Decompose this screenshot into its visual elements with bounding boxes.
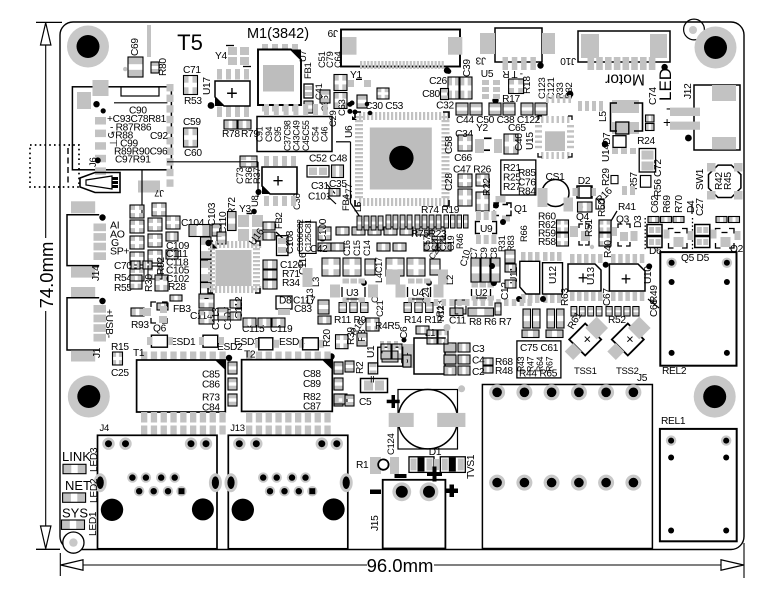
svg-text:R66: R66 xyxy=(519,225,530,242)
svg-text:TSS1: TSS1 xyxy=(574,366,597,377)
svg-text:T1: T1 xyxy=(133,348,145,359)
svg-text:R4R5: R4R5 xyxy=(375,321,400,332)
svg-text:C67: C67 xyxy=(602,288,613,306)
svg-text:J1: J1 xyxy=(92,347,103,358)
svg-text:L4: L4 xyxy=(374,273,385,283)
svg-text:C30 C53: C30 C53 xyxy=(365,101,404,112)
svg-text:J12: J12 xyxy=(683,83,694,99)
svg-text:C42: C42 xyxy=(310,244,328,255)
svg-text:Y2: Y2 xyxy=(476,123,488,134)
svg-text:R84: R84 xyxy=(518,187,536,198)
svg-text:C77: C77 xyxy=(344,183,355,200)
svg-text:C32: C32 xyxy=(436,101,454,112)
svg-text:J9: J9 xyxy=(327,27,338,38)
svg-text:C97R91: C97R91 xyxy=(115,155,151,166)
svg-text:R70: R70 xyxy=(674,195,685,213)
svg-text:R53: R53 xyxy=(184,96,202,107)
svg-text:+: + xyxy=(226,83,238,105)
svg-text:U7: U7 xyxy=(298,50,309,62)
svg-text:C17: C17 xyxy=(374,257,384,273)
svg-text:R41: R41 xyxy=(618,202,636,213)
svg-text:SP+: SP+ xyxy=(110,245,129,257)
svg-text:C27: C27 xyxy=(695,198,706,216)
svg-text:D8: D8 xyxy=(279,296,292,307)
svg-text:C4: C4 xyxy=(472,356,485,367)
svg-text:R74 R19: R74 R19 xyxy=(421,205,460,216)
svg-text:C74: C74 xyxy=(648,87,659,105)
svg-text:×: × xyxy=(626,332,633,347)
svg-text:M1(3842): M1(3842) xyxy=(247,26,309,42)
svg-text:SYS: SYS xyxy=(62,506,88,521)
svg-text:C29: C29 xyxy=(328,110,339,127)
svg-text:×: × xyxy=(584,332,591,347)
svg-text:LED2: LED2 xyxy=(89,478,100,503)
svg-text:J14: J14 xyxy=(91,265,102,281)
svg-text:R1: R1 xyxy=(356,460,369,471)
svg-text:R34: R34 xyxy=(282,278,300,289)
svg-text:C62: C62 xyxy=(650,195,661,213)
svg-text:R56: R56 xyxy=(653,179,664,197)
svg-text:C59: C59 xyxy=(183,117,201,128)
svg-text:TVS1: TVS1 xyxy=(466,454,477,479)
svg-text:R24: R24 xyxy=(637,136,655,147)
svg-text:C14: C14 xyxy=(362,240,372,256)
svg-text:- T R: - T R xyxy=(503,68,523,79)
svg-text:96.0mm: 96.0mm xyxy=(367,555,434,576)
svg-text:J6: J6 xyxy=(88,158,99,167)
svg-text:J15: J15 xyxy=(370,515,381,531)
svg-text:L3: L3 xyxy=(311,277,322,287)
svg-text:L6: L6 xyxy=(353,202,364,212)
svg-text:TSS2: TSS2 xyxy=(616,366,639,377)
svg-text:R80: R80 xyxy=(158,58,169,76)
svg-text:C6: C6 xyxy=(399,326,410,339)
svg-text:D3: D3 xyxy=(633,215,644,228)
svg-text:R48: R48 xyxy=(495,366,513,377)
svg-text:C75 C61: C75 C61 xyxy=(520,343,559,354)
svg-text:LED3: LED3 xyxy=(89,447,100,472)
svg-text:C72: C72 xyxy=(653,159,664,177)
svg-text:R45: R45 xyxy=(723,172,734,190)
svg-text:REL2: REL2 xyxy=(662,366,687,377)
svg-text:J13: J13 xyxy=(230,423,244,434)
svg-text:CS1: CS1 xyxy=(546,172,566,183)
svg-text:C66: C66 xyxy=(454,153,472,164)
svg-text:U15: U15 xyxy=(525,132,536,150)
svg-text:74.0mm: 74.0mm xyxy=(36,242,57,309)
svg-text:C15: C15 xyxy=(352,240,362,256)
svg-text:C3: C3 xyxy=(472,344,485,355)
svg-text:R29: R29 xyxy=(601,168,612,186)
svg-text:U2: U2 xyxy=(475,288,488,299)
svg-text:C86: C86 xyxy=(202,380,220,391)
svg-text:R2: R2 xyxy=(355,361,366,374)
svg-text:R78: R78 xyxy=(222,129,240,140)
svg-text:FB1: FB1 xyxy=(303,62,314,79)
svg-text:U17: U17 xyxy=(202,77,213,95)
svg-text:SW1: SW1 xyxy=(695,168,706,190)
svg-text:D1: D1 xyxy=(429,447,442,458)
svg-text:C89: C89 xyxy=(303,379,321,390)
svg-text:C31: C31 xyxy=(311,181,329,192)
svg-text:R39: R39 xyxy=(346,327,357,345)
svg-text:C84: C84 xyxy=(202,403,220,414)
svg-text:C44 C50 C38 C122: C44 C50 C38 C122 xyxy=(456,115,541,126)
svg-text:C2: C2 xyxy=(472,367,485,378)
svg-text:+USB-: +USB- xyxy=(103,309,114,338)
svg-text:Q1: Q1 xyxy=(514,204,528,215)
svg-text:R69: R69 xyxy=(662,195,673,213)
svg-text:C58: C58 xyxy=(444,136,455,154)
svg-text:LINK: LINK xyxy=(62,449,91,464)
svg-text:R58: R58 xyxy=(538,237,556,248)
svg-text:C87: C87 xyxy=(303,402,321,413)
svg-text:ESD1: ESD1 xyxy=(170,337,196,348)
svg-text:II: II xyxy=(370,375,374,385)
svg-text:C40: C40 xyxy=(514,133,525,151)
svg-text:L5: L5 xyxy=(598,111,609,122)
svg-text:U8: U8 xyxy=(250,195,261,207)
svg-text:U12: U12 xyxy=(548,266,559,284)
svg-text:J4: J4 xyxy=(100,423,109,434)
svg-text:C5: C5 xyxy=(359,397,372,408)
svg-text:C46: C46 xyxy=(320,126,330,142)
svg-text:R14 R12: R14 R12 xyxy=(404,315,443,326)
svg-text:R8 R6 R7: R8 R6 R7 xyxy=(469,317,512,328)
svg-text:R18: R18 xyxy=(522,76,533,94)
svg-text:C28: C28 xyxy=(444,173,455,191)
svg-text:C124: C124 xyxy=(386,433,397,455)
svg-text:NET: NET xyxy=(65,478,91,493)
svg-text:Y4: Y4 xyxy=(215,51,227,62)
svg-text:T5: T5 xyxy=(177,30,203,55)
svg-text:C16: C16 xyxy=(342,240,352,256)
svg-text:R51: R51 xyxy=(584,219,595,237)
svg-text:C39: C39 xyxy=(462,59,473,77)
svg-text:FB2: FB2 xyxy=(274,212,285,229)
svg-text:R22: R22 xyxy=(482,178,493,196)
svg-text:C52 C48: C52 C48 xyxy=(309,154,348,165)
svg-text:R93: R93 xyxy=(131,320,149,331)
svg-text:C65: C65 xyxy=(508,123,526,134)
svg-text:U6: U6 xyxy=(344,125,355,138)
svg-text:C70: C70 xyxy=(114,261,132,272)
svg-text:C21: C21 xyxy=(375,300,386,317)
svg-text:J7: J7 xyxy=(155,187,164,198)
svg-text:C13: C13 xyxy=(305,288,316,305)
svg-text:Q5 D5: Q5 D5 xyxy=(681,253,710,264)
svg-text:C11: C11 xyxy=(449,316,467,327)
svg-text:R15: R15 xyxy=(111,342,129,353)
svg-text:+: + xyxy=(272,171,283,192)
svg-text:+: + xyxy=(621,269,632,289)
svg-text:R44 R65: R44 R65 xyxy=(519,369,558,380)
svg-text:FB3: FB3 xyxy=(173,304,191,315)
svg-text:C71: C71 xyxy=(183,65,201,76)
svg-text:R46: R46 xyxy=(455,233,465,249)
svg-text:U4: U4 xyxy=(412,288,425,299)
svg-text:+: + xyxy=(663,114,671,130)
svg-text:LED1: LED1 xyxy=(88,511,99,536)
svg-text:U3: U3 xyxy=(346,288,359,299)
svg-text:REL1: REL1 xyxy=(661,416,686,427)
svg-text:R52: R52 xyxy=(608,315,626,326)
svg-text:Q6: Q6 xyxy=(153,324,167,335)
svg-text:C80: C80 xyxy=(422,89,440,100)
svg-text:C60: C60 xyxy=(184,148,202,159)
svg-text:U14: U14 xyxy=(601,144,612,162)
svg-text:C64: C64 xyxy=(333,51,344,68)
svg-text:U9: U9 xyxy=(480,224,493,235)
svg-text:R63: R63 xyxy=(560,288,571,306)
svg-text:U1: U1 xyxy=(366,345,377,358)
svg-text:Motor: Motor xyxy=(605,71,645,88)
svg-text:C108: C108 xyxy=(285,230,296,254)
svg-text:L2: L2 xyxy=(445,275,456,285)
svg-text:T2: T2 xyxy=(244,350,256,361)
svg-text:R30: R30 xyxy=(144,274,155,292)
svg-text:C103: C103 xyxy=(207,202,218,226)
svg-text:R37: R37 xyxy=(252,167,263,184)
svg-text:J10: J10 xyxy=(560,55,576,66)
svg-text:U5: U5 xyxy=(481,69,494,80)
svg-text:C69: C69 xyxy=(130,38,141,56)
svg-text:J5: J5 xyxy=(637,373,648,384)
svg-text:R20: R20 xyxy=(322,329,333,347)
svg-text:C26: C26 xyxy=(429,76,447,87)
svg-text:C102: C102 xyxy=(166,274,190,285)
svg-text:U13: U13 xyxy=(586,267,597,285)
svg-text:J3: J3 xyxy=(475,55,486,66)
svg-text:C25: C25 xyxy=(111,368,129,379)
svg-text:C92: C92 xyxy=(150,131,168,142)
